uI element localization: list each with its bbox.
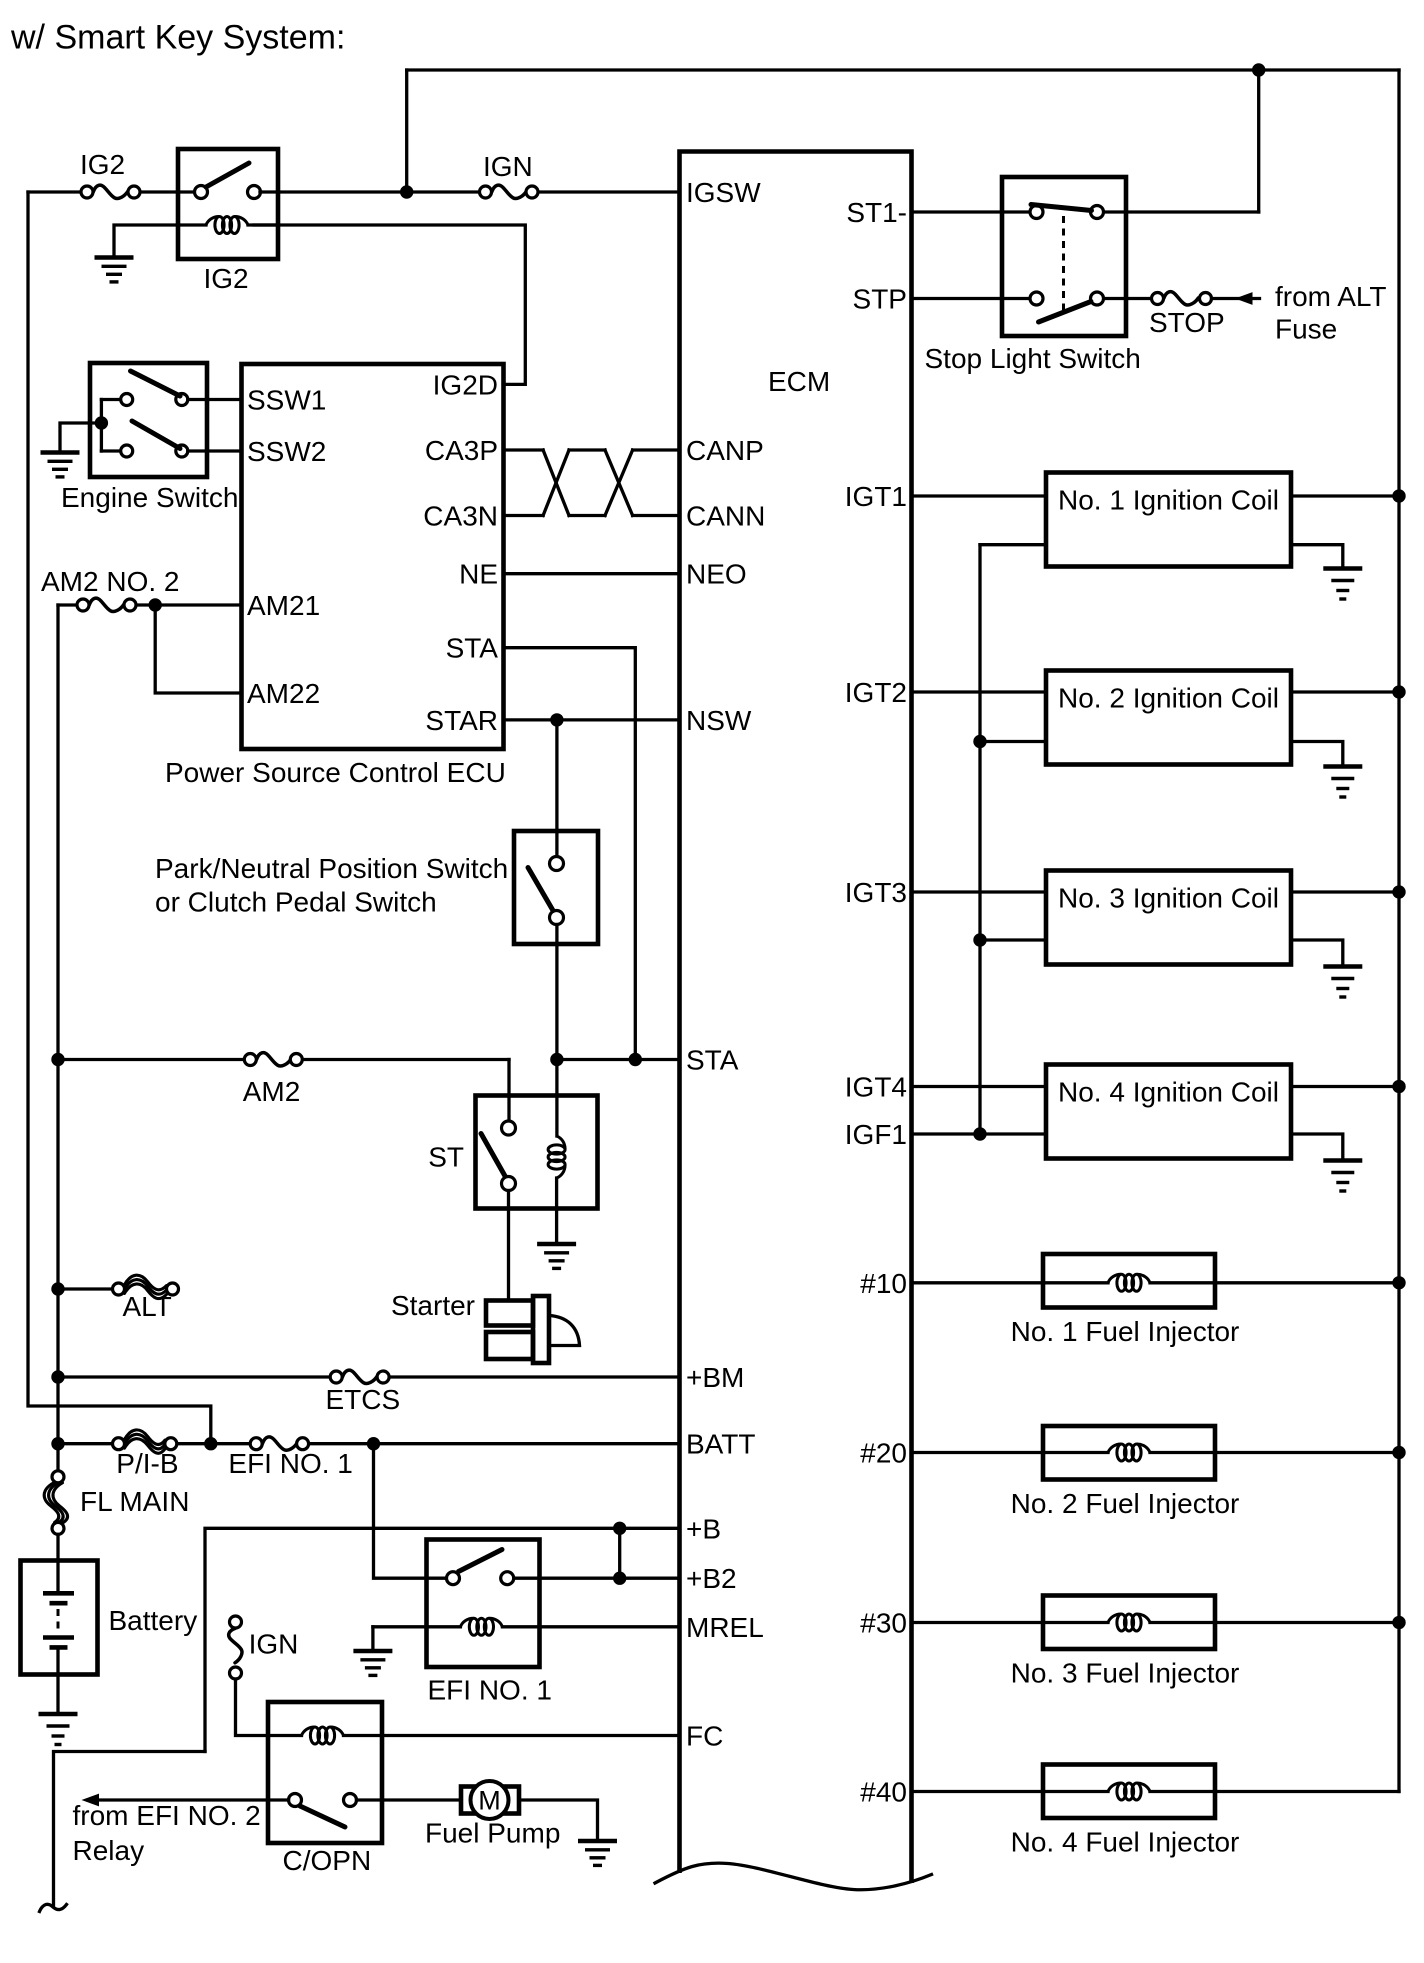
node: coil 3 output junction	[1392, 885, 1405, 898]
injector 2 box	[1043, 1426, 1215, 1480]
wire: coil 2 IGF pin to bus	[980, 740, 1046, 743]
wire: BATT junction down to EFI relay switch	[374, 1444, 447, 1579]
fuse AM2 NO. 2	[77, 598, 136, 611]
ignition coil 1 box	[1046, 473, 1291, 567]
injector 1 box	[1043, 1254, 1215, 1308]
svg-text:IGT4: IGT4	[845, 1072, 907, 1103]
node: injector 2 bus junction	[1392, 1446, 1405, 1459]
svg-text:EFI NO. 1: EFI NO. 1	[428, 1675, 552, 1706]
relay ST coil (vertical)	[555, 1060, 558, 1137]
svg-text:No. 1 Ignition Coil: No. 1 Ignition Coil	[1058, 485, 1279, 516]
svg-text:IGT3: IGT3	[845, 877, 907, 908]
svg-text:#40: #40	[860, 1777, 907, 1808]
node: +B2 junction	[613, 1572, 626, 1585]
ignition coil 2 box	[1046, 671, 1291, 765]
svg-text:Park/Neutral Position Switch: Park/Neutral Position Switch	[155, 853, 508, 884]
svg-text:IGT2: IGT2	[845, 677, 907, 708]
relay EFI NO.1 switch blade	[459, 1550, 503, 1572]
node: BATT row left junction	[51, 1437, 64, 1450]
wire: CAN crossover X1	[543, 450, 569, 516]
ECM bottom break wave	[655, 1863, 932, 1890]
wire: NE to NEO	[504, 572, 680, 575]
wire: IGN fuse to C/OPN coil to ECM FC	[236, 1679, 302, 1736]
wire: STOP fuse to ALT fuse arrow	[1212, 297, 1260, 300]
svg-text:IGN: IGN	[483, 151, 533, 182]
svg-text:+B2: +B2	[686, 1563, 737, 1594]
injector 1 coil	[1108, 1274, 1150, 1291]
wire: IG2 relay coil to ground	[114, 225, 176, 256]
injector 2 coil	[1108, 1444, 1150, 1461]
wire: IG2D from relay coil down to Power Source Control ECU	[254, 225, 525, 384]
svg-text:#30: #30	[860, 1608, 907, 1639]
IC: ECM box (left, top, right edges)	[680, 152, 912, 1884]
svg-text:CANN: CANN	[686, 501, 765, 532]
switch: Stop Light Switch box	[1002, 177, 1126, 336]
arrow (from ALT Fuse)	[1235, 292, 1253, 305]
svg-text:Fuse: Fuse	[1275, 314, 1337, 345]
wire: CAN crossover X2	[605, 450, 633, 516]
svg-text:IGF1: IGF1	[845, 1119, 907, 1150]
svg-text:SSW1: SSW1	[247, 385, 326, 416]
wire: coil 3 IGF pin to bus	[980, 938, 1046, 941]
node: junction on IGN row	[400, 185, 413, 198]
svg-text:from ALT: from ALT	[1275, 281, 1387, 312]
svg-text:No. 2 Fuel Injector: No. 2 Fuel Injector	[1011, 1488, 1240, 1519]
svg-text:CANP: CANP	[686, 435, 764, 466]
wire: IGT1 to No. 1 Ignition Coil	[912, 494, 1047, 497]
wire: CA3P/CANP twisted pair with crossovers	[504, 448, 544, 451]
wire: right bus	[1397, 70, 1400, 1792]
stop light switch STP contacts	[1030, 292, 1043, 305]
injector 3 coil	[1108, 1614, 1150, 1631]
relay IG2 switch contacts	[195, 186, 208, 199]
wire: ST1- row	[912, 210, 1031, 213]
relay EFI NO.1 switch contacts	[447, 1572, 460, 1585]
svg-text:IG2: IG2	[204, 263, 249, 294]
wire: STAR junction down to park/neutral switch	[555, 720, 558, 857]
ground (battery)	[39, 1714, 78, 1745]
node: left-bus tap on BATT row	[204, 1437, 217, 1450]
svg-text:BATT: BATT	[686, 1429, 755, 1460]
wire: coil 2 output to right bus	[1291, 690, 1399, 693]
wire: battery negative to ground	[56, 1647, 59, 1713]
wire: CA3N/CANN segments	[504, 514, 544, 517]
node: AM21/AM22 split	[149, 598, 162, 611]
node: +B junction	[613, 1522, 626, 1535]
stop light switch ST1- contacts	[1030, 206, 1043, 219]
svg-text:STAR: STAR	[425, 705, 498, 736]
svg-text:P/I-B: P/I-B	[116, 1448, 178, 1479]
svg-text:ST1-: ST1-	[846, 197, 907, 228]
switch: Park/Neutral Position Switch box	[514, 831, 598, 944]
svg-text:MREL: MREL	[686, 1612, 764, 1643]
wire: STP row	[912, 297, 1031, 300]
node: STA junction (PSC)	[629, 1053, 642, 1066]
svg-text:IG2: IG2	[80, 149, 125, 180]
svg-text:IGT1: IGT1	[845, 481, 907, 512]
svg-text:ETCS: ETCS	[326, 1384, 401, 1415]
ground (IG2 relay coil)	[95, 258, 134, 282]
wire: STAR to ECM NSW	[504, 718, 680, 721]
engine switch SSW1 contacts	[101, 398, 120, 401]
node: IGF bus junction 4	[973, 1127, 986, 1140]
node: ALT junction	[51, 1282, 64, 1295]
svg-text:from EFI NO. 2: from EFI NO. 2	[73, 1800, 261, 1831]
wire: coil 1 ground lead	[1291, 545, 1343, 568]
svg-text:AM22: AM22	[247, 678, 320, 709]
svg-text:STOP: STOP	[1149, 307, 1225, 338]
node: coil 2 output junction	[1392, 685, 1405, 698]
wire: IGF1 row to ECM	[912, 1132, 1047, 1135]
svg-text:FC: FC	[686, 1721, 723, 1752]
svg-text:EFI NO. 1: EFI NO. 1	[228, 1448, 352, 1479]
relay C/OPN switch contacts	[289, 1794, 302, 1807]
svg-text:NE: NE	[459, 559, 498, 590]
svg-text:+B: +B	[686, 1513, 721, 1544]
switch: Engine Switch box	[90, 363, 207, 477]
wire: from EFI NO.2 relay into C/OPN	[88, 1798, 289, 1801]
wire: park/neutral switch down to STA row	[555, 925, 558, 1060]
wire: +B2 row from relay to ECM	[514, 1577, 680, 1580]
engine switch SSW1 blade	[131, 371, 181, 396]
wire: vertical branch up to top bus	[405, 70, 408, 192]
arrow (from EFI NO. 2 Relay)	[82, 1794, 100, 1807]
svg-text:#20: #20	[860, 1438, 907, 1469]
node: engine switch common junction	[95, 416, 108, 429]
wire: #10 to No. 1 Fuel Injector	[912, 1281, 1109, 1284]
relay IG2 box	[178, 149, 278, 259]
fusible link FL MAIN (vertical)	[44, 1471, 67, 1535]
svg-text:IG2D: IG2D	[433, 369, 498, 400]
engine switch SSW2 blade	[132, 421, 180, 449]
node: IGF bus junction 2	[973, 735, 986, 748]
park/neutral switch contacts	[550, 857, 564, 871]
svg-text:No. 3 Fuel Injector: No. 3 Fuel Injector	[1011, 1658, 1240, 1689]
wire: left bus from IG2 fuse down and over to BATT row	[28, 192, 211, 1444]
wire: IG2 relay output to ECM IGSW with branch up	[260, 190, 480, 193]
injector 4 box	[1043, 1765, 1215, 1819]
ground (EFI relay coil)	[353, 1651, 392, 1675]
svg-text:No. 2 Ignition Coil: No. 2 Ignition Coil	[1058, 683, 1279, 714]
svg-text:M: M	[478, 1786, 501, 1816]
wire: #20 to No. 2 Fuel Injector	[912, 1451, 1109, 1454]
svg-text:Starter: Starter	[391, 1290, 475, 1321]
wire: coil 4 ground lead	[1291, 1134, 1343, 1160]
svg-text:ST: ST	[428, 1142, 464, 1173]
relay C/OPN switch blade	[300, 1806, 345, 1827]
node: top bus junction	[1252, 63, 1265, 76]
wire: BATT row	[58, 1442, 113, 1445]
fuse ETCS	[330, 1370, 389, 1383]
wire: engine switch common + ground stub	[100, 400, 103, 452]
wire: +B/+B2 tie	[618, 1528, 621, 1578]
svg-text:#10: #10	[860, 1268, 907, 1299]
wire: injector 1 to right bus	[1150, 1281, 1399, 1284]
wire: coil 2 ground lead	[1291, 742, 1343, 766]
svg-text:C/OPN: C/OPN	[283, 1845, 372, 1876]
park/neutral switch blade	[528, 868, 553, 911]
fuse IG2	[81, 185, 140, 198]
svg-text:IGN: IGN	[249, 1628, 299, 1659]
ground (ignition coil 2)	[1323, 767, 1362, 798]
svg-text:CA3P: CA3P	[425, 435, 498, 466]
injector 4 coil	[1108, 1783, 1150, 1800]
ground (fuel pump)	[578, 1841, 617, 1865]
svg-text:No. 1 Fuel Injector: No. 1 Fuel Injector	[1011, 1316, 1240, 1347]
wire: #40 to No. 4 Fuel Injector	[912, 1790, 1109, 1793]
svg-text:Battery: Battery	[109, 1605, 198, 1636]
wire: branch to AM22	[155, 605, 241, 693]
wire: injector 2 to right bus	[1150, 1451, 1399, 1454]
wire: AM2 NO.2 feed down left	[56, 605, 59, 1471]
wire: battery feed lower-left with break	[54, 1752, 206, 1907]
battery plates	[43, 1591, 74, 1596]
relay EFI NO.1 coil	[373, 1625, 461, 1628]
node: coil 4 output junction	[1392, 1080, 1405, 1093]
node: STA junction (p/n)	[550, 1053, 563, 1066]
relay IG2 coil	[178, 223, 206, 226]
svg-text:SSW2: SSW2	[247, 436, 326, 467]
relay C/OPN box	[268, 1702, 382, 1843]
motor: Starter symbol	[486, 1301, 533, 1326]
relay ST switch blade	[481, 1134, 505, 1177]
wire: fuel pump to ground	[519, 1800, 598, 1840]
svg-text:NEO: NEO	[686, 559, 747, 590]
fuse IGN (vertical)	[229, 1616, 242, 1679]
wire: IGF bus (coil feedback)	[978, 545, 981, 1134]
wire: AM2 row from left bus through fuse to ST relay	[58, 1058, 244, 1061]
wire: ALT stub	[58, 1287, 113, 1290]
svg-text:Power Source Control ECU: Power Source Control ECU	[165, 757, 506, 788]
node: coil 1 output junction	[1392, 489, 1405, 502]
svg-text:AM21: AM21	[247, 590, 320, 621]
wire: AM2 NO.2 fuse row to AM21	[58, 603, 77, 606]
wire: IGT4 to No. 4 Ignition Coil	[912, 1085, 1047, 1088]
wire: top bus across to right bus	[407, 68, 1399, 71]
wire: +B row	[205, 1528, 680, 1751]
engine switch SSW2 contacts	[101, 449, 120, 452]
ground (ignition coil 4)	[1323, 1161, 1362, 1192]
wire: coil 1 IGF pin to bus	[980, 543, 1046, 546]
wire: C/OPN output to fuel pump	[357, 1798, 462, 1801]
ground (ST relay coil)	[537, 1244, 576, 1268]
svg-text:Fuel Pump: Fuel Pump	[425, 1818, 560, 1849]
break squiggle	[40, 1904, 67, 1911]
svg-text:FL MAIN: FL MAIN	[80, 1486, 189, 1517]
ground (ignition coil 3)	[1323, 967, 1362, 998]
node: IGF bus junction 3	[973, 933, 986, 946]
wire: IGT2 to No. 2 Ignition Coil	[912, 690, 1047, 693]
wire: injector 4 to right bus	[1150, 1790, 1399, 1793]
svg-text:AM2 NO. 2: AM2 NO. 2	[41, 566, 179, 597]
wire: STA row from junction to ECM	[557, 1058, 680, 1061]
svg-text:Stop Light Switch: Stop Light Switch	[925, 343, 1141, 374]
stop light switch dashed link	[1062, 216, 1065, 310]
node: EFI relay feed junction	[367, 1437, 380, 1450]
battery box	[21, 1561, 98, 1675]
IC: Power Source Control ECU box	[242, 364, 504, 749]
svg-text:STA: STA	[446, 633, 499, 664]
relay IG2 switch blade	[206, 163, 249, 187]
stop light switch STP blade	[1039, 302, 1092, 323]
wire: coil 3 output to right bus	[1291, 890, 1399, 893]
svg-text:No. 3 Ignition Coil: No. 3 Ignition Coil	[1058, 883, 1279, 914]
fuse STOP	[1152, 292, 1212, 305]
svg-text:ALT: ALT	[123, 1291, 172, 1322]
node: injector 1 bus junction	[1392, 1276, 1405, 1289]
ground (ignition coil 1)	[1323, 569, 1362, 600]
wire: coil 1 output to right bus	[1291, 494, 1399, 497]
svg-text:STA: STA	[686, 1045, 739, 1076]
wire: SSW2 to PSC ECU	[188, 449, 242, 452]
wire: IG2 fuse row into relay	[28, 190, 81, 193]
wire: +BM row	[58, 1375, 330, 1378]
node: injector 3 bus junction	[1392, 1616, 1405, 1629]
wire: injector 3 to right bus	[1150, 1621, 1399, 1624]
svg-text:No. 4 Ignition Coil: No. 4 Ignition Coil	[1058, 1077, 1279, 1108]
svg-text:Relay: Relay	[73, 1835, 145, 1866]
fusible link ALT	[113, 1275, 179, 1298]
fuse AM2	[244, 1053, 302, 1066]
fuse EFI NO. 1	[250, 1437, 308, 1450]
stop light switch ST1- blade	[1031, 205, 1092, 211]
svg-text:IGSW: IGSW	[686, 177, 761, 208]
node: STAR junction	[550, 713, 563, 726]
wire: FL MAIN to battery	[56, 1534, 59, 1593]
svg-text:No. 4 Fuel Injector: No. 4 Fuel Injector	[1011, 1827, 1240, 1858]
wire: coil 4 output to right bus	[1291, 1085, 1399, 1088]
node: +BM junction	[51, 1370, 64, 1383]
ignition coil 4 box	[1046, 1065, 1291, 1159]
wire: ST relay output down to starter	[507, 1191, 510, 1301]
svg-text:CA3N: CA3N	[423, 501, 498, 532]
fuse IGN	[480, 185, 539, 198]
svg-text:STP: STP	[853, 284, 907, 315]
svg-text:NSW: NSW	[686, 705, 752, 736]
wire: IGT3 to No. 3 Ignition Coil	[912, 890, 1047, 893]
wire: STA (PSC) down to ECM STA row	[504, 648, 636, 1060]
svg-text:or Clutch Pedal Switch: or Clutch Pedal Switch	[155, 887, 437, 918]
wire: coil 3 ground lead	[1291, 940, 1343, 966]
motor: Fuel Pump	[461, 1787, 519, 1814]
relay EFI NO.1 box	[427, 1540, 540, 1668]
svg-text:Engine Switch: Engine Switch	[61, 482, 238, 513]
relay ST box	[476, 1096, 598, 1209]
svg-text:+BM: +BM	[686, 1362, 744, 1393]
svg-text:ECM: ECM	[768, 366, 830, 397]
ignition coil 3 box	[1046, 871, 1291, 965]
svg-text:w/ Smart Key System:: w/ Smart Key System:	[10, 19, 345, 57]
node: AM2 row left junction	[51, 1053, 64, 1066]
wire: SSW1 to PSC ECU	[188, 398, 242, 401]
fusible link P/I-B	[113, 1430, 177, 1453]
wire: EFI relay coil to ground	[371, 1627, 374, 1650]
wire: #30 to No. 3 Fuel Injector	[912, 1621, 1109, 1624]
svg-text:AM2: AM2	[243, 1076, 301, 1107]
relay ST switch contacts	[502, 1121, 516, 1135]
injector 3 box	[1043, 1596, 1215, 1650]
ground (engine switch)	[41, 453, 80, 477]
